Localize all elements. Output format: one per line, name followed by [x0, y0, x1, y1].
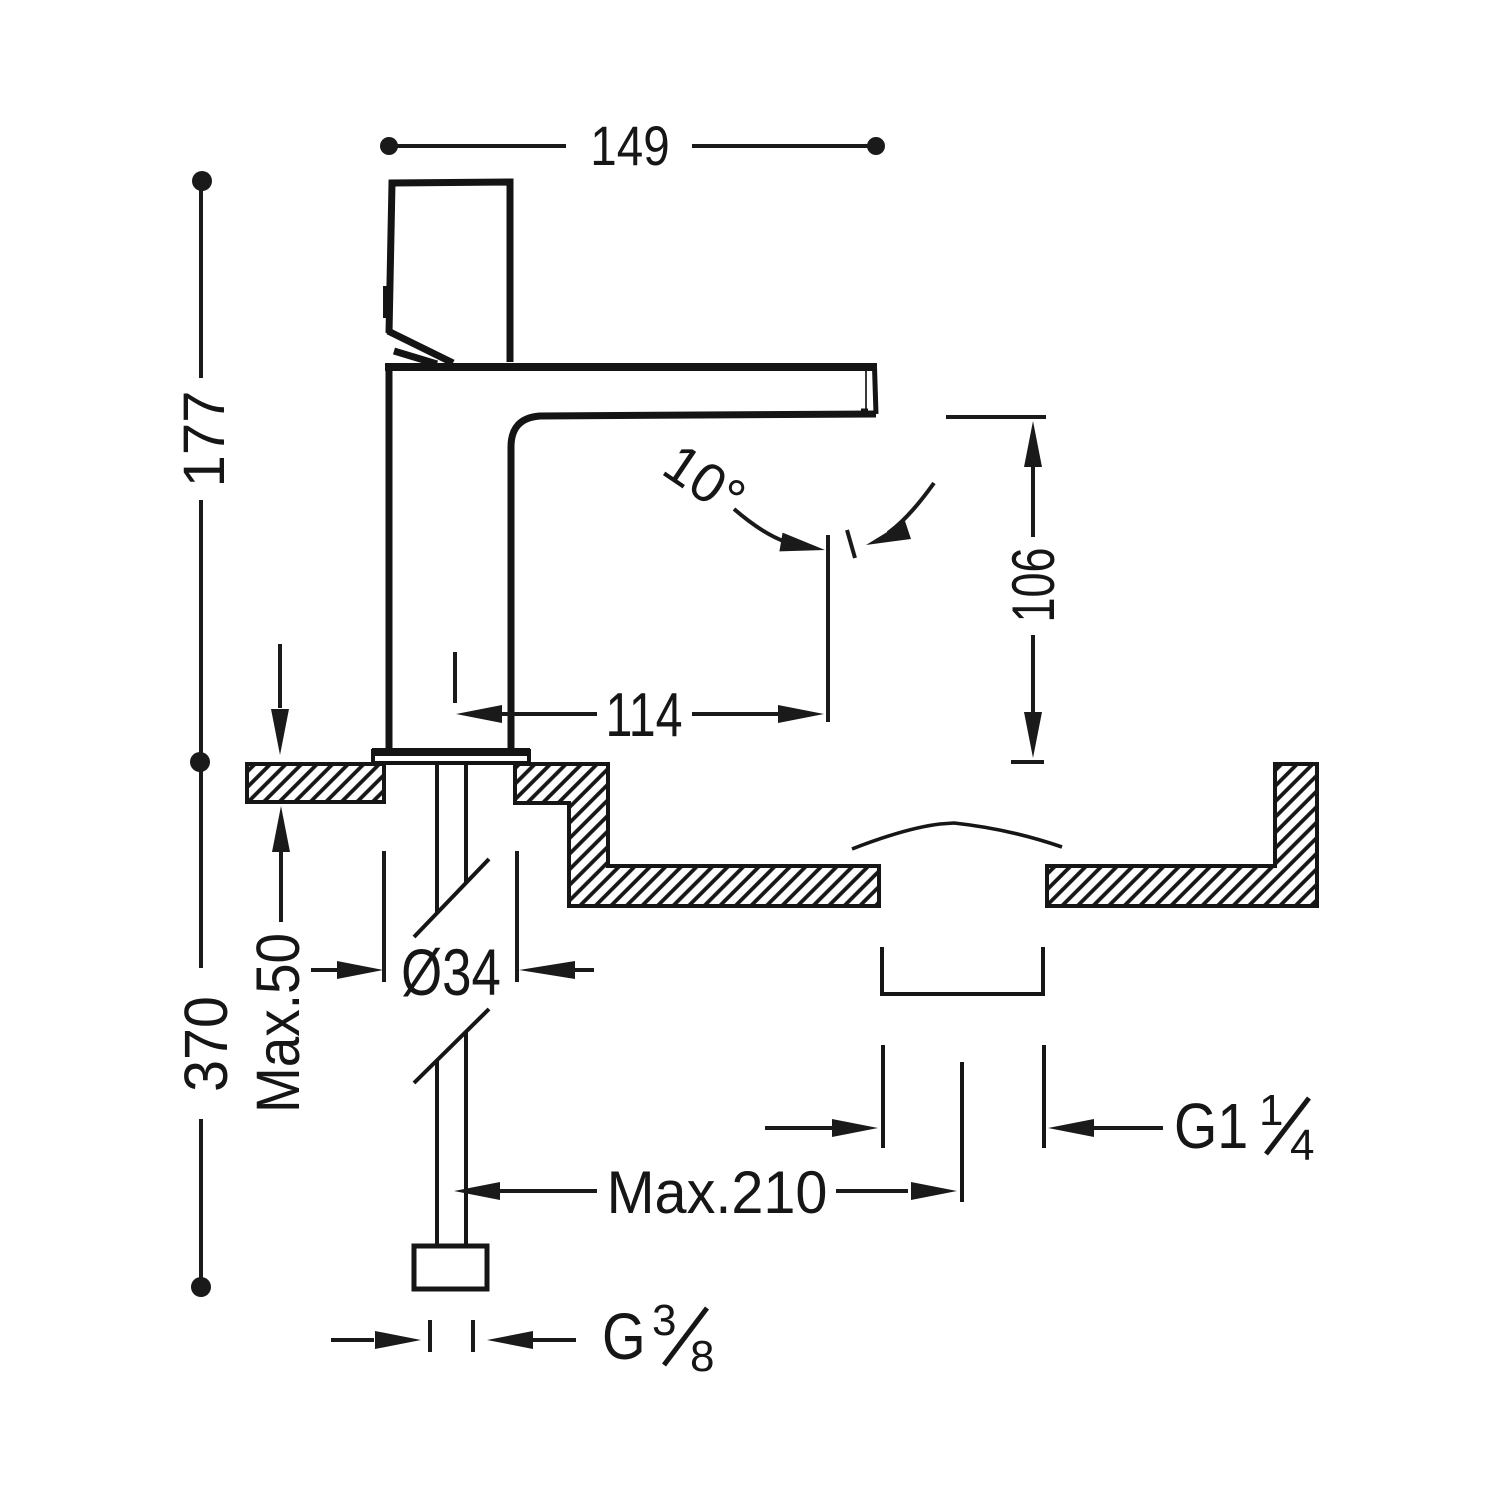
spout tip right edge: [875, 367, 877, 414]
svg-text:177: 177: [172, 391, 237, 488]
dim O34: [311, 851, 594, 982]
dim 114: [455, 535, 828, 723]
angle 10 deg arcs: [734, 483, 934, 558]
svg-text:G1: G1: [1174, 1090, 1248, 1161]
dim 177: [192, 171, 212, 754]
dim 106: [946, 417, 1046, 762]
svg-text:8: 8: [690, 1332, 714, 1381]
dim G1 1/4: [765, 1119, 1163, 1137]
svg-text:3: 3: [652, 1296, 676, 1345]
svg-text:1: 1: [1259, 1086, 1283, 1135]
dim G 3/8 text: [602, 1296, 714, 1381]
dim 149: [380, 137, 885, 155]
supply valve box G3/8: [414, 1246, 487, 1289]
svg-text:149: 149: [590, 115, 669, 177]
base plate: [372, 749, 530, 764]
dim 370: [190, 752, 211, 1297]
svg-text:G: G: [602, 1300, 646, 1373]
drain hole bracket: [882, 947, 1043, 996]
svg-text:Max.50: Max.50: [244, 933, 312, 1113]
svg-text:Max.210: Max.210: [607, 1160, 828, 1226]
faucet handle: [388, 182, 510, 364]
body left edge: [386, 367, 393, 749]
dim Max.50: [271, 644, 290, 922]
drain dome arc: [852, 823, 1062, 849]
spout underside and body right edge: [511, 414, 876, 749]
pipe break slash 1: [414, 859, 489, 937]
aerator face line: [865, 371, 867, 411]
svg-text:Ø34: Ø34: [401, 935, 501, 1009]
svg-text:370: 370: [171, 996, 240, 1092]
counter right of drain (L piece): [1047, 764, 1317, 906]
supply pipe: [437, 765, 466, 1246]
drain tailpiece lines G1 1/4: [883, 1045, 1044, 1202]
dim G1 1/4 text: [1174, 1086, 1314, 1170]
svg-text:4: 4: [1290, 1121, 1314, 1170]
pipe break slash 2: [414, 1009, 489, 1083]
dim Max.210: [454, 1182, 957, 1200]
faucet body and spout top: [385, 363, 877, 371]
counter right / basin step: [515, 764, 879, 906]
counter left slab: [247, 764, 384, 802]
dim G 3/8: [331, 1320, 576, 1352]
svg-text:114: 114: [605, 680, 682, 749]
svg-text:106: 106: [1001, 547, 1068, 622]
handle indicator mark: [383, 286, 391, 318]
